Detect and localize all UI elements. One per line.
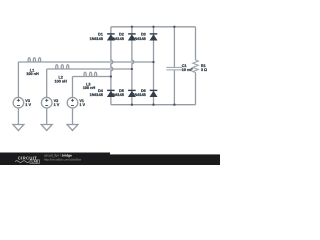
svg-text:1N4148: 1N4148 xyxy=(90,37,103,41)
svg-text:100 nH: 100 nH xyxy=(83,86,96,90)
svg-text:1 V: 1 V xyxy=(25,103,31,107)
svg-text:1 V: 1 V xyxy=(54,103,60,107)
svg-text:10 mF: 10 mF xyxy=(182,68,194,72)
svg-text:1N4148: 1N4148 xyxy=(111,93,124,97)
svg-text:3 Ω: 3 Ω xyxy=(201,68,207,72)
svg-text:1N4148: 1N4148 xyxy=(111,37,124,41)
svg-text:http://circuitlab.com/c8dx5bw: http://circuitlab.com/c8dx5bw xyxy=(44,157,82,161)
svg-text:1N4148: 1N4148 xyxy=(90,93,103,97)
svg-text:100 nH: 100 nH xyxy=(54,79,67,83)
svg-text:1 V: 1 V xyxy=(79,103,85,107)
svg-text:1N4148: 1N4148 xyxy=(132,93,145,97)
svg-text:100 nH: 100 nH xyxy=(26,72,39,76)
svg-text:1N4148: 1N4148 xyxy=(132,37,145,41)
svg-text:LAB: LAB xyxy=(32,160,39,164)
